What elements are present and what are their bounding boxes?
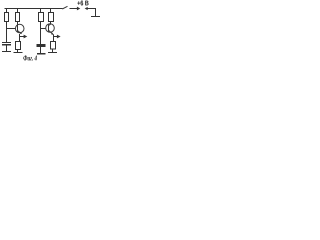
caption Фиг. 4 [23,56,36,61]
wire: T2 emitter down to R6 [53,35,55,42]
capacitor C1 plate 1 [2,42,11,44]
ground bar G2 [14,52,23,54]
wire: R4 top stub [50,9,52,13]
wire: R5 to ground [17,50,19,53]
capacitor C2 plate 1 [37,44,46,46]
wire: base line of T1 [7,28,17,30]
ground bar G1 [2,51,11,53]
wire: T1 emitter output branch [20,36,25,38]
wire: R2 top stub [17,9,19,13]
resistor R2 [16,13,20,22]
switch S1 lever [62,6,67,9]
wire: R1 top stub [6,9,8,13]
arrow: T1 output arrowhead [24,35,28,39]
transistor T2 emitter diagonal [49,30,54,35]
wire: R4 bottom to T2 collector [50,22,52,25]
arrow: T2 output arrowhead [57,35,61,39]
resistor R3 [39,13,44,22]
ground bar G4 [48,52,57,54]
wire: battery return to top-right ground [87,9,95,17]
wire: R1 bottom to base node and C1 [6,22,8,43]
wire: R3 bottom through T2 base node down to C2 [40,22,42,46]
arrow: battery return left arrowhead [85,7,88,10]
transistor T1 emitter diagonal [18,31,22,34]
wire: R2 bottom to T1 collector [17,22,19,26]
ground bar G3 [37,53,46,55]
resistor R4 [49,13,54,22]
wire: +V top rail [5,8,63,10]
wire: switch to supply arrow [70,8,78,10]
wire: base line of T2 [41,28,47,30]
capacitor C2 plate 2 [37,46,46,48]
wire: T2 emitter output branch [54,36,58,38]
wire: C1 to ground [6,45,8,52]
resistor R6 [51,42,56,50]
resistor R1 [5,13,9,22]
label +6 V [77,1,88,6]
transistor T1 base bar [17,25,19,32]
wire: C2 to ground [40,47,42,54]
transistor T2 collector link [49,24,51,25]
transistor T2 envelope [46,24,55,33]
wire: R6 to ground [52,49,54,53]
transistor T1 emitter arrowhead [20,32,22,34]
resistor R5 [16,42,21,50]
arrow: +6V supply arrowhead [77,7,80,11]
transistor T2 emitter arrowhead [51,33,53,35]
ground bar G5 [91,16,100,18]
capacitor C1 plate 2 [2,44,11,46]
transistor T1 envelope [15,24,24,33]
transistor T2 base bar [48,25,50,32]
wire: R3 top stub [40,9,42,13]
wire: T1 emitter down to R5 [19,34,21,42]
